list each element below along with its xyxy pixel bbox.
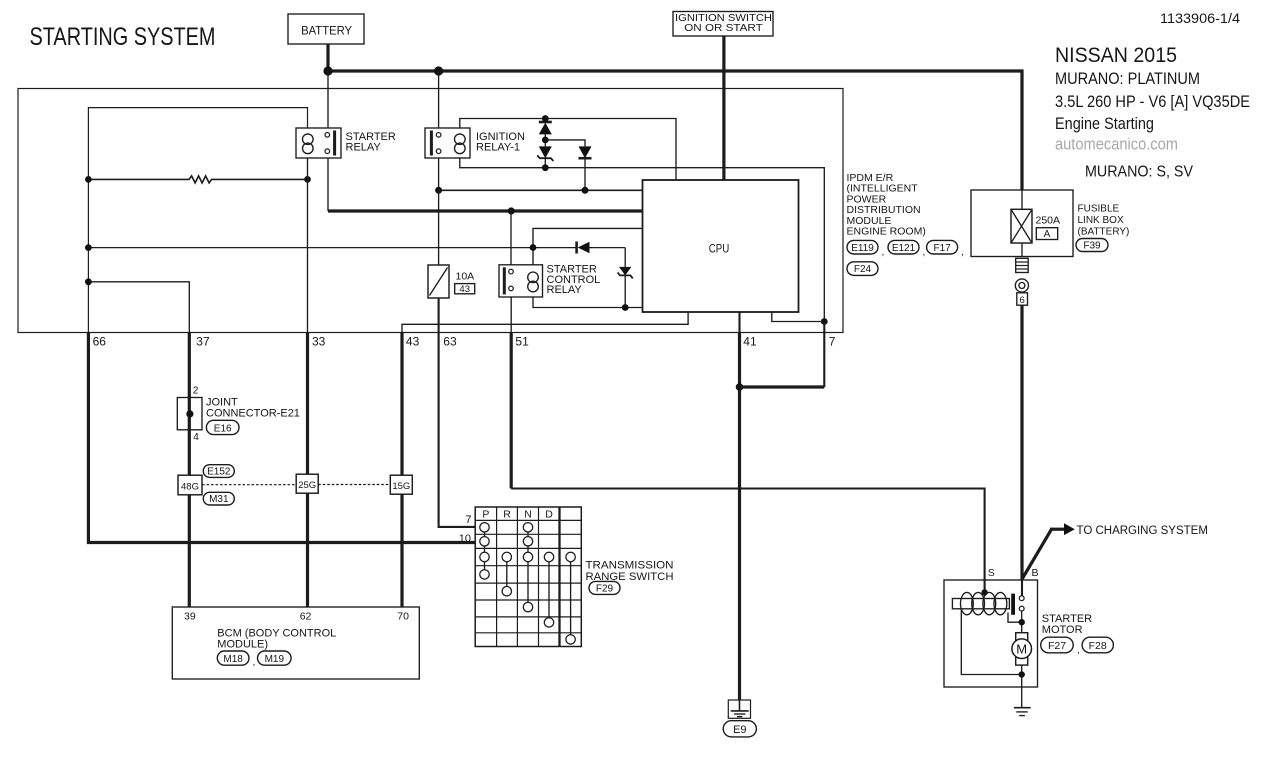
svg-text:MODULE): MODULE) bbox=[217, 639, 268, 651]
svg-text:P: P bbox=[482, 509, 489, 521]
connector E9 bbox=[723, 721, 756, 737]
connector F39 bbox=[1076, 239, 1108, 252]
svg-text:41: 41 bbox=[743, 335, 757, 349]
svg-text:(BATTERY): (BATTERY) bbox=[1078, 227, 1130, 238]
junction pin 41 / pin 7 tie bbox=[736, 383, 744, 391]
starter control relay bbox=[499, 265, 543, 297]
svg-text:E152: E152 bbox=[207, 467, 231, 478]
junction BCM line left bbox=[85, 278, 92, 285]
svg-text:,: , bbox=[923, 247, 926, 258]
BCM body control module bbox=[172, 607, 419, 679]
svg-text:6: 6 bbox=[1019, 295, 1024, 306]
wire pin 63 to transmission range switch pin 7 bbox=[439, 333, 476, 527]
svg-text:,: , bbox=[253, 657, 256, 668]
dashed link 48G to 25G bbox=[202, 484, 296, 486]
wire starter relay coil feed (pin 66 branch) bbox=[88, 108, 307, 333]
range switch column R contacts bbox=[502, 552, 511, 596]
svg-text:D: D bbox=[545, 509, 553, 521]
joint connector label bbox=[206, 397, 300, 420]
wire starter control relay coil bottom to CPU bbox=[533, 297, 643, 308]
wire pin 66 to transmission range switch pin 10 bbox=[88, 333, 475, 543]
IPDM E/R label block bbox=[847, 172, 926, 238]
fuse number box 43 bbox=[455, 284, 475, 296]
svg-text:RELAY: RELAY bbox=[547, 284, 583, 296]
svg-text:39: 39 bbox=[184, 611, 196, 623]
wire pin 43 to BCM 70 bbox=[400, 333, 403, 608]
svg-text:2: 2 bbox=[193, 386, 199, 397]
solenoid contacts bbox=[1019, 596, 1024, 611]
junction contact-motor bbox=[1019, 619, 1025, 625]
svg-text:R: R bbox=[503, 509, 511, 521]
junction D5 node bbox=[582, 187, 589, 194]
wire BCM line to pin 37 bbox=[88, 282, 189, 333]
svg-text:M: M bbox=[1016, 642, 1027, 657]
to charging system arrow bbox=[1022, 523, 1074, 578]
svg-text:F29: F29 bbox=[596, 583, 614, 594]
svg-text:RELAY-1: RELAY-1 bbox=[476, 141, 520, 153]
junction diode chain bottom bbox=[542, 164, 549, 171]
junction bus ignition relay branch bbox=[434, 66, 443, 75]
svg-text:E119: E119 bbox=[851, 243, 874, 254]
svg-text:25G: 25G bbox=[298, 480, 316, 491]
svg-text:70: 70 bbox=[397, 611, 409, 623]
wire pin 51 to starter motor S bbox=[511, 333, 984, 593]
junction resistor right bbox=[304, 176, 311, 183]
wire starter relay contact out bbox=[327, 158, 329, 211]
svg-text:F17: F17 bbox=[933, 243, 951, 254]
svg-text:automecanico.com: automecanico.com bbox=[1055, 136, 1178, 154]
svg-text:TRANSMISSION: TRANSMISSION bbox=[586, 560, 674, 572]
fusible link box label bbox=[1078, 204, 1130, 238]
wire sense line (resistor net to starter control relay coil) bbox=[88, 247, 576, 249]
svg-text:63: 63 bbox=[443, 335, 457, 349]
svg-text:Engine Starting: Engine Starting bbox=[1055, 115, 1154, 133]
range switch column D contacts bbox=[544, 552, 553, 627]
starter relay label bbox=[346, 131, 396, 153]
wire starter control relay coil top to CPU bbox=[533, 228, 643, 264]
junction pin 7 node bbox=[821, 318, 828, 325]
transmission range switch header P R N D bbox=[482, 509, 553, 521]
wire starter motor to ground bbox=[1021, 687, 1023, 708]
svg-text:37: 37 bbox=[196, 335, 210, 349]
wire ignition switch to CPU bbox=[722, 36, 725, 180]
fusible link letter box A bbox=[1036, 228, 1057, 241]
svg-text:S: S bbox=[988, 567, 995, 579]
svg-text:M18: M18 bbox=[223, 654, 243, 665]
starter relay bbox=[296, 128, 341, 158]
fusible link box F39 bbox=[971, 190, 1073, 257]
svg-text:BATTERY: BATTERY bbox=[301, 25, 352, 37]
svg-text:RELAY: RELAY bbox=[346, 141, 382, 153]
wire bus to starter relay contact bbox=[327, 71, 329, 128]
wire contact to motor bbox=[1008, 611, 1022, 633]
solenoid coil bbox=[952, 592, 1009, 614]
splice 15G bbox=[390, 475, 412, 494]
battery B1 bbox=[288, 14, 364, 44]
wire battery bus to fusible link bbox=[328, 71, 1022, 190]
svg-text:7: 7 bbox=[465, 514, 471, 526]
wire pin 33 to BCM 62 bbox=[306, 333, 309, 608]
wire relay contact feed from thick node bbox=[510, 211, 512, 265]
wire pin 37 to BCM 39 bbox=[188, 333, 191, 608]
connector F27 bbox=[1041, 637, 1080, 656]
connector M19 bbox=[258, 651, 292, 665]
junction resistor left bbox=[85, 176, 92, 183]
transmission range switch grid bbox=[475, 507, 581, 647]
wire pin 7 drop bbox=[823, 322, 825, 388]
wire thick node to CPU (relay output) bbox=[328, 209, 643, 212]
svg-text:NISSAN 2015: NISSAN 2015 bbox=[1055, 42, 1177, 67]
ignition relay-1 bbox=[425, 128, 470, 158]
wire starter relay coil to pin 33 bbox=[307, 158, 309, 333]
svg-text:CPU: CPU bbox=[709, 242, 730, 256]
diode D1 (ignition relay suppressor upper) bbox=[539, 119, 552, 147]
svg-text:STARTING SYSTEM: STARTING SYSTEM bbox=[30, 23, 216, 51]
IPDM E/R enclosure box bbox=[18, 89, 843, 333]
wire pin 7 tie bbox=[740, 385, 825, 388]
svg-text:E9: E9 bbox=[733, 724, 746, 736]
svg-text:43: 43 bbox=[459, 284, 470, 295]
junction motor return bbox=[1019, 671, 1025, 677]
junction diode chain top bbox=[542, 115, 549, 122]
svg-text:B: B bbox=[1031, 567, 1038, 579]
zener diode D2 (lower) bbox=[537, 146, 553, 167]
connector E152 bbox=[203, 465, 234, 478]
wire CPU to pin 43 bbox=[402, 312, 688, 333]
svg-text:TO CHARGING SYSTEM: TO CHARGING SYSTEM bbox=[1077, 525, 1208, 537]
connector M18 bbox=[217, 651, 255, 668]
wire fuse to pin 63 bbox=[438, 298, 440, 333]
svg-text:A: A bbox=[1044, 229, 1051, 240]
connector F17 bbox=[927, 240, 964, 258]
starter motor box bbox=[944, 580, 1038, 687]
svg-text:66: 66 bbox=[93, 335, 107, 349]
wire ignition relay contact to fuse node bbox=[438, 158, 440, 190]
starter control relay label bbox=[547, 264, 601, 296]
connector pin box 6 bbox=[1017, 293, 1028, 306]
svg-text:M31: M31 bbox=[209, 494, 229, 505]
ground (starter motor) bbox=[1014, 708, 1031, 716]
motor M bbox=[1012, 633, 1032, 665]
connector F28 bbox=[1082, 637, 1113, 653]
svg-text:MURANO: S, SV: MURANO: S, SV bbox=[1085, 163, 1193, 180]
svg-text:4: 4 bbox=[193, 432, 199, 443]
range switch column N contacts bbox=[523, 523, 532, 612]
svg-text:10: 10 bbox=[459, 533, 471, 545]
wire ignition relay coil frame top bbox=[460, 119, 676, 181]
wire B terminal into box bbox=[1021, 580, 1023, 596]
connector E121 bbox=[888, 240, 925, 258]
ignition relay-1 label bbox=[476, 131, 525, 153]
connector M31 bbox=[203, 492, 234, 505]
range switch column 5 contacts bbox=[566, 552, 575, 644]
solenoid contact bar bbox=[1011, 594, 1015, 615]
connector E119 bbox=[847, 240, 884, 258]
svg-text:250A: 250A bbox=[1036, 215, 1061, 227]
svg-text:,: , bbox=[1077, 645, 1080, 656]
connector F29 bbox=[589, 581, 620, 594]
junction sense line left bbox=[85, 244, 92, 251]
svg-text:3.5L 260 HP - V6 [A] VQ35DE: 3.5L 260 HP - V6 [A] VQ35DE bbox=[1055, 93, 1250, 111]
header NISSAN 2015 info block bbox=[1055, 42, 1250, 181]
junction diode chain middle bbox=[542, 137, 549, 144]
transmission range switch label bbox=[586, 560, 674, 584]
splice 25G bbox=[296, 474, 318, 493]
wire CPU to pin 41 / ground E9 bbox=[738, 312, 740, 700]
connector F24 bbox=[847, 262, 878, 276]
wire diode branch to D5 bbox=[545, 140, 585, 147]
svg-text:E121: E121 bbox=[892, 243, 916, 254]
fuse 10A bbox=[428, 265, 449, 298]
svg-text:33: 33 bbox=[312, 335, 326, 349]
junction starter control relay branch bbox=[508, 207, 515, 214]
svg-text:F39: F39 bbox=[1083, 241, 1101, 252]
starter motor label bbox=[1042, 613, 1092, 636]
zener diode D4 bbox=[618, 248, 633, 308]
splice 48G bbox=[178, 475, 202, 495]
wire battery drop bbox=[326, 44, 329, 71]
junction fuse node bbox=[435, 187, 442, 194]
connector hatch block below fusible link bbox=[1016, 258, 1028, 272]
svg-text:LINK BOX: LINK BOX bbox=[1078, 215, 1124, 226]
resistor line with junctions bbox=[88, 176, 307, 183]
wire motor return loop bbox=[961, 609, 1021, 687]
wire bus to ignition relay contact bbox=[438, 71, 440, 128]
svg-text:ON OR START: ON OR START bbox=[684, 22, 763, 34]
svg-text:N: N bbox=[524, 509, 532, 521]
svg-text:STARTER: STARTER bbox=[1042, 613, 1092, 625]
junction sense line to coil bbox=[530, 244, 537, 251]
svg-text:51: 51 bbox=[515, 335, 529, 349]
svg-text:MOTOR: MOTOR bbox=[1042, 624, 1083, 636]
svg-text:,: , bbox=[882, 247, 885, 258]
connector E16 bbox=[206, 420, 239, 434]
fusible link element 250A bbox=[1011, 190, 1032, 257]
svg-text:,: , bbox=[961, 247, 964, 258]
wire CPU to pin 7 bbox=[772, 312, 825, 322]
range switch column P contacts bbox=[480, 523, 489, 580]
svg-text:43: 43 bbox=[406, 335, 420, 349]
svg-text:E16: E16 bbox=[214, 423, 232, 434]
junction battery bus bbox=[323, 66, 332, 75]
svg-text:M19: M19 bbox=[265, 654, 285, 665]
dashed link 25G to 15G bbox=[318, 484, 390, 486]
svg-text:15G: 15G bbox=[392, 481, 410, 492]
ignition switch block bbox=[673, 12, 773, 37]
wire fusible link to starter motor B bbox=[1020, 305, 1023, 580]
svg-text:62: 62 bbox=[300, 611, 312, 623]
svg-text:MURANO: PLATINUM: MURANO: PLATINUM bbox=[1055, 70, 1200, 88]
svg-text:48G: 48G bbox=[181, 481, 199, 492]
svg-text:F24: F24 bbox=[854, 264, 872, 275]
wire fuse node to CPU bbox=[439, 189, 643, 191]
svg-text:ENGINE ROOM): ENGINE ROOM) bbox=[847, 226, 926, 238]
diode D3 (sense line) bbox=[577, 242, 626, 254]
ground E9 bbox=[728, 700, 750, 718]
diode D5 bbox=[579, 146, 592, 190]
wire fuse feed bbox=[438, 190, 440, 265]
svg-text:F27: F27 bbox=[1048, 640, 1066, 652]
svg-text:1133906-1/4: 1133906-1/4 bbox=[1160, 11, 1240, 26]
connector ring symbol bbox=[1015, 279, 1028, 292]
wire relay contact to pin 51 bbox=[510, 297, 512, 333]
svg-text:CONNECTOR-E21: CONNECTOR-E21 bbox=[206, 408, 300, 420]
junction S wire to solenoid bbox=[981, 589, 987, 595]
op CPU U1 bbox=[643, 180, 799, 312]
svg-text:10A: 10A bbox=[456, 271, 475, 283]
junction D4 to coil-bottom line bbox=[622, 304, 629, 311]
svg-text:F28: F28 bbox=[1089, 640, 1107, 652]
svg-text:FUSIBLE: FUSIBLE bbox=[1078, 204, 1120, 215]
joint connector E21 bbox=[177, 398, 202, 430]
svg-text:7: 7 bbox=[829, 335, 836, 349]
wire ignition relay coil frame bottom to pin 7 drop bbox=[460, 158, 825, 322]
